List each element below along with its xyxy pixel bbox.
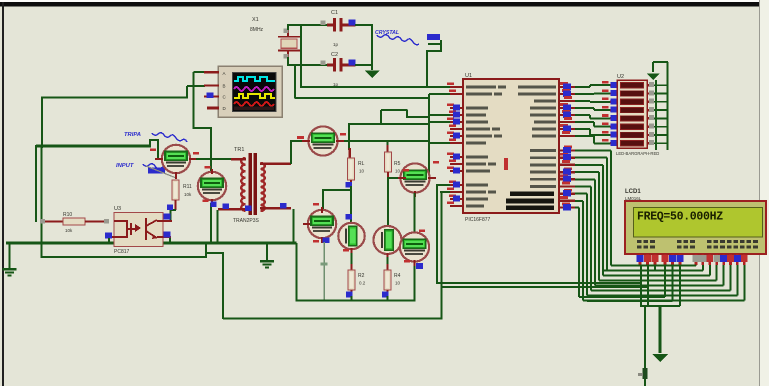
meter M6 (ammeter vertical) <box>338 223 364 249</box>
wire to MCU RA pin y122 <box>429 121 450 123</box>
wire R11 to U3 elbow <box>170 209 176 211</box>
wire crystal top riser <box>287 24 289 30</box>
wire down to U3 collector <box>169 210 171 222</box>
meter M2 bottom pin <box>211 199 213 205</box>
wire R2 to bottom rail <box>350 296 352 301</box>
wire rail corner down x296 <box>295 243 297 301</box>
wire long rail y287 <box>441 286 649 288</box>
wire scope-A to center vertical <box>193 127 213 129</box>
minus mark M5 bottom <box>313 240 319 243</box>
wire jog v x407 <box>406 110 408 118</box>
U1 internal red mark <box>504 158 508 170</box>
wire TR1 left-bottom to rail <box>216 210 218 243</box>
ground GND1 <box>3 268 17 276</box>
svg-text:TR1: TR1 <box>234 147 244 153</box>
U1 left pin name texts <box>466 86 506 208</box>
LED bargraph U2 <box>617 80 647 148</box>
U1 left pin stubs <box>450 86 463 207</box>
capacitor C1 <box>327 18 356 32</box>
wire M7 to R4 <box>386 257 388 267</box>
wire elbow right <box>149 139 158 141</box>
net square U3 lower-right <box>164 232 171 238</box>
thin probe wire M5 to bottom rail <box>323 242 325 301</box>
minus mark M5 <box>313 203 319 206</box>
svg-text:R4: R4 <box>394 273 401 279</box>
wire riser x429 MCU to M4 right <box>428 94 430 179</box>
net square TR1 mid <box>245 206 252 212</box>
svg-text:RL: RL <box>358 161 365 167</box>
wire stair from blue bar <box>428 43 441 45</box>
meter M2 (voltmeter) <box>198 172 226 200</box>
blue net bar INPUT <box>148 168 165 174</box>
wire M2 bottom to rail <box>210 203 212 243</box>
minus mark M1 <box>193 152 199 155</box>
wire to MCU OSC2 pin <box>429 93 450 95</box>
wire riser x206 <box>205 243 207 258</box>
wire power arrow stem <box>652 62 654 72</box>
wire jog h y117 <box>406 116 430 118</box>
net square U3 upper-right <box>164 214 171 220</box>
capacitor C2 <box>327 58 356 72</box>
scope pin D <box>207 107 219 110</box>
meter M1 left pin <box>155 158 163 160</box>
net square R2 bottom <box>346 292 353 298</box>
resistor RL top pin <box>349 148 351 159</box>
meter M3 left pin <box>302 140 310 142</box>
resistor R5 <box>385 152 392 172</box>
svg-text:10: 10 <box>359 169 365 174</box>
wire horizontal y124 <box>349 123 430 125</box>
ground GND2 <box>260 260 274 268</box>
wire gnd riser x372 <box>371 24 373 70</box>
wire chain x437 <box>436 185 438 284</box>
net square TR1 sec-right <box>280 203 287 209</box>
meter M1 right pin <box>189 158 197 160</box>
wire riser scope A <box>192 72 194 129</box>
net square R11-U3 node <box>167 205 173 211</box>
U1 right pin marks <box>560 82 572 210</box>
meter M6 bottom pin <box>350 248 352 255</box>
resistor R4 <box>384 270 391 290</box>
svg-text:PIC16F877: PIC16F877 <box>465 217 491 223</box>
resistor R2 <box>348 270 355 290</box>
wire R5 to M4 <box>388 177 401 179</box>
wire stub RE2 <box>440 191 450 193</box>
meter M5 top pin <box>321 207 323 213</box>
net square R4 bottom <box>382 292 389 298</box>
wire chain x441 <box>440 192 442 319</box>
wire RA segment y110 <box>381 109 408 111</box>
svg-text:FREQ=50.000HZ: FREQ=50.000HZ <box>637 211 723 224</box>
svg-text:B: B <box>223 84 226 89</box>
meter M4 right pin <box>428 177 436 179</box>
power arrow bottom <box>652 354 668 362</box>
wire branch y253 <box>206 252 224 254</box>
meter M2 top pin <box>211 169 213 174</box>
meter M4 left pin <box>398 177 406 179</box>
svg-text:10: 10 <box>395 169 401 174</box>
meter M5 left pin <box>303 223 310 225</box>
R4 bottom pin <box>386 290 388 296</box>
U2 right pins <box>647 82 654 145</box>
plus mark M4 <box>403 169 409 172</box>
RL bottom pin <box>350 180 352 187</box>
minus mark M3 <box>340 133 346 136</box>
svg-text:R11: R11 <box>183 184 192 190</box>
svg-text:R5: R5 <box>394 161 401 167</box>
resistor R11 <box>172 180 179 200</box>
R5 bottom pin <box>387 172 389 179</box>
wire down to meter M1 <box>157 139 159 159</box>
RS wire chain <box>575 207 579 209</box>
resistor R2 top pin <box>350 264 352 271</box>
wire outer rail y318 <box>223 317 443 319</box>
U1 right pin stubs <box>559 86 575 209</box>
net label blue square pin C <box>207 93 214 99</box>
net square TR1 sec-left <box>223 204 230 210</box>
wire U3 lower-left to rail <box>108 238 110 244</box>
meter M5 bottom pin <box>321 237 323 243</box>
svg-text:INPUT: INPUT <box>116 163 134 169</box>
svg-text:X1: X1 <box>252 17 259 23</box>
wire stair h2 <box>426 50 441 52</box>
wire branch to M5 <box>323 189 352 191</box>
U1 left pin number marks <box>447 82 456 204</box>
resistor R10 <box>40 220 64 222</box>
left border line <box>2 2 4 386</box>
svg-text:LED-BARGRAPH-RED: LED-BARGRAPH-RED <box>616 151 659 156</box>
wire outer rail left riser x223 <box>222 253 224 319</box>
plus mark M8 <box>419 230 425 233</box>
wire stair v2 <box>426 51 428 88</box>
right margin strip <box>760 0 769 386</box>
U2 left pins <box>602 81 617 146</box>
crystal X1 <box>278 29 301 58</box>
meter M7 bottom pin <box>386 253 388 259</box>
wire bottom rail y300 <box>296 299 416 301</box>
top border bar <box>0 2 759 7</box>
wire M4 bottom to M8 top <box>413 193 415 233</box>
net square M2 bottom <box>211 202 217 208</box>
wire net-B horizontal <box>42 96 188 98</box>
PORTB to LCD data wire bundle <box>575 151 744 301</box>
scope pin C <box>204 96 219 98</box>
meter M4 bottom pin <box>414 191 416 197</box>
svg-text:PC817: PC817 <box>114 249 130 255</box>
wire RL riser x349 <box>348 123 350 150</box>
svg-text:0.2: 0.2 <box>359 281 366 286</box>
svg-text:TRIPA: TRIPA <box>124 132 141 138</box>
svg-text:R2: R2 <box>358 273 365 279</box>
meter M3 (ammeter) <box>308 126 337 155</box>
wire to scope pin B <box>187 85 205 87</box>
svg-text:10k: 10k <box>65 228 73 233</box>
wire to meter M3 <box>290 140 308 142</box>
top white margin <box>0 0 759 2</box>
U3 right pins <box>163 220 172 222</box>
wire to bottom edge <box>644 306 646 386</box>
wire U2 right bus v1 <box>655 80 657 150</box>
net square C2 right <box>349 60 356 66</box>
wire down to M5 top <box>322 189 324 210</box>
wire R5 down to M7 <box>387 177 389 227</box>
net square U3 lower-left <box>105 233 112 239</box>
wire TR1 right-top riser <box>290 141 292 164</box>
wire left vertical x42 <box>41 97 43 149</box>
wire jog v x381 <box>380 110 382 125</box>
plus mark M3 <box>297 136 304 139</box>
svg-text:A: A <box>223 71 226 76</box>
wire ground stem mid <box>266 243 268 260</box>
wire M8 bottom to bottom rail <box>413 266 415 301</box>
wire stub RE1 <box>436 184 450 186</box>
wire stair v <box>440 40 442 52</box>
U3 left bottom pin wires <box>106 236 114 238</box>
plus mark M1 <box>150 149 156 152</box>
wire U2 bus top <box>653 61 668 63</box>
small component on bottom wire <box>643 368 648 379</box>
resistor R5 top pin <box>386 141 388 147</box>
wire elbow up <box>149 140 151 148</box>
wire horizontal y141 from M3 <box>344 140 430 142</box>
wire OSC1 to MCU <box>301 86 450 88</box>
minus mark M8 <box>404 260 410 263</box>
mark M4 top-right <box>433 161 439 164</box>
wire M1 to TR1 primary top <box>196 158 231 160</box>
wire ground stem left <box>8 243 10 268</box>
meter M5 (voltmeter) <box>308 210 336 238</box>
svg-text:1p: 1p <box>333 42 339 47</box>
optocoupler U3 <box>114 213 163 247</box>
microcontroller U1 PIC16F877 <box>463 79 559 213</box>
RW wire chain <box>672 265 674 301</box>
wire OSC2 horizontal <box>295 97 430 99</box>
wire OSC2 node rail <box>287 64 334 66</box>
svg-text:R10: R10 <box>63 212 72 218</box>
wire U2 right bus v2 <box>666 62 668 150</box>
R11 bottom pin <box>174 200 176 210</box>
E wire chain <box>679 265 681 306</box>
U1 lower-right bold pin names <box>506 192 554 211</box>
wire R4 to bottom rail <box>386 296 388 301</box>
wire crystal bottom riser <box>287 57 289 66</box>
svg-text:C1: C1 <box>331 10 338 16</box>
meter M4 (ammeter) <box>400 163 429 192</box>
plus mark M2 <box>205 166 211 169</box>
wire to MCU RA pin y115 <box>429 114 450 116</box>
meter M3 right pin <box>336 140 344 142</box>
resistor R4 top pin <box>386 264 388 271</box>
net square M8 bottom <box>416 263 423 269</box>
transformer TR1 <box>218 153 291 215</box>
LCD pin label texts <box>637 240 758 249</box>
U1 left net squares <box>453 105 460 202</box>
oscilloscope scope1 <box>218 66 282 117</box>
wire OSC2 drop x295 <box>294 64 296 99</box>
wires MCU to U2 <box>575 85 610 143</box>
meter M7 (ammeter vertical) <box>374 226 402 254</box>
wire M6 to R2 <box>350 253 352 267</box>
svg-text:U2: U2 <box>617 74 624 80</box>
minus mark M2 <box>203 200 209 203</box>
VSS VDD VEE verticals <box>640 265 642 307</box>
wire TR1 right-bottom to rail <box>292 209 294 243</box>
ground arrow crystal <box>365 71 380 79</box>
svg-text:U1: U1 <box>465 73 472 79</box>
LCD pin stubs <box>639 254 746 265</box>
meter M8 (voltmeter) <box>400 232 429 261</box>
wire vertical x211 to meter M2 <box>210 127 212 173</box>
power arrow U2 <box>647 74 660 81</box>
R2 bottom pin <box>350 290 352 296</box>
wire thick ground rail y243 <box>6 242 297 245</box>
wire C1 to gnd riser <box>355 24 373 26</box>
LCD pin net squares <box>637 255 748 262</box>
mark M6 bottom <box>343 249 349 252</box>
net square M5 bottom <box>323 238 330 244</box>
wire U3 lower-right to rail <box>169 238 171 244</box>
svg-text:C2: C2 <box>331 52 338 58</box>
wire riser to scope B <box>186 86 188 99</box>
scope pin B <box>204 85 219 87</box>
wire vertical x36 down to R10 <box>35 145 37 222</box>
svg-text:8MHz: 8MHz <box>250 27 264 33</box>
meter M1 bottom pin <box>175 172 177 179</box>
wire RL to meter M6 <box>350 186 352 224</box>
wire C2 to gnd riser <box>355 64 373 66</box>
blue net bar crystal <box>427 34 440 40</box>
gray pointer line <box>146 166 176 178</box>
svg-text:LCD1: LCD1 <box>625 189 641 195</box>
svg-text:10: 10 <box>395 281 401 286</box>
wire vertical x41 down <box>40 145 42 258</box>
net square M6 top <box>346 214 353 220</box>
wire horizontal y257 <box>42 256 208 258</box>
resistor RL <box>348 158 355 180</box>
wire to MCU RA pin y143 <box>429 142 450 144</box>
U1 right pin name texts <box>518 86 556 188</box>
wire thick horizontal y146 <box>36 145 151 148</box>
meter M1 (voltmeter) <box>162 145 190 173</box>
svg-text:TRAN2P3S: TRAN2P3S <box>233 218 260 224</box>
wire long rail y283 <box>437 282 642 284</box>
wire thick power stem <box>659 306 662 353</box>
wire OSC1 riser long x301 <box>300 24 302 88</box>
svg-text:10k: 10k <box>184 192 192 197</box>
net square C1 right <box>349 20 356 26</box>
net square RL bottom <box>346 182 353 188</box>
wire OSC1 node rail <box>287 24 334 26</box>
meter M8 bottom pin <box>413 260 415 267</box>
wire to scope pin A <box>194 71 206 73</box>
svg-text:U3: U3 <box>114 206 121 212</box>
scope pin A <box>204 71 219 73</box>
